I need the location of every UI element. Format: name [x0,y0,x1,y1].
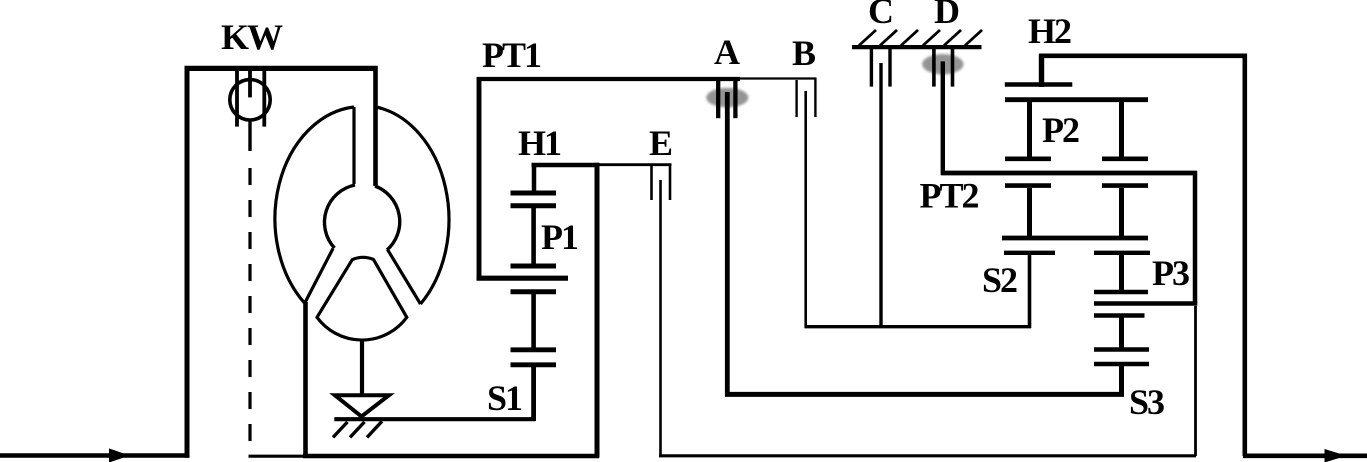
S3 riser [1119,365,1124,396]
wire: top horizontal KW shaft [185,66,378,71]
wall hatch 1 [859,30,876,46]
B shaft [804,91,807,328]
P2 left pillar lower [1027,188,1032,236]
svg-text:C: C [868,0,894,31]
svg-text:P2: P2 [1042,110,1079,150]
ground triangle [335,395,389,416]
P3 mesh bar a [1094,251,1150,255]
svg-text:B: B [792,33,816,73]
P3 pillar 1 [1119,188,1124,236]
P3 ring lower vertical [1194,306,1197,456]
D plate right [951,49,955,87]
E bracket right tick [669,164,672,201]
A plate right [733,80,737,118]
S3 mesh bar lower [1094,362,1149,367]
svg-text:S3: S3 [1129,382,1164,422]
svg-text:P3: P3 [1152,253,1189,293]
torque converter shell left arc [275,107,354,303]
PT1 shaft line to A [477,77,740,81]
wall hatch 2 [880,30,897,46]
bottom line under converter [303,454,599,459]
slot left edge [352,107,355,184]
dashed centerline [248,168,251,456]
E shaft [659,180,662,456]
H2 drum bar [1005,82,1073,86]
turbine circle right arc [375,186,400,250]
ground hatch 1 [333,422,348,438]
svg-text:KW: KW [221,17,283,57]
wire: left vertical engine to pump [185,66,190,458]
H1 stub to clutch [532,167,537,193]
S1 mesh bar upper [511,347,557,352]
input arrowhead [109,448,130,462]
turbine circle left arc [324,185,355,248]
PT2 shaft line [941,171,1197,176]
S1 mesh bar lower [511,362,557,367]
P3 pillar 2 [1119,254,1124,290]
P2 left bar below PT2 [1005,183,1051,188]
PT2 to P3 long bar [1094,301,1197,306]
S1 riser to ground [531,365,536,421]
P2 left pillar upper [1027,101,1032,157]
housing wall line C D [852,45,982,49]
PT1 elbow vertical [477,77,482,278]
pump plate left [235,71,239,127]
H2 line top [1039,53,1247,58]
C plate left [870,49,873,87]
shaft clutch to P1 mesh [531,207,536,266]
D shaft to PT2 [941,61,945,175]
ground hatch 3 [367,421,382,437]
svg-text:PT1: PT1 [482,35,541,75]
B bracket left tick [795,80,797,117]
P1 lower mesh bar [511,289,557,294]
torque converter shell right arc [376,107,449,304]
svg-text:H2: H2 [1028,11,1071,51]
centerline bottom link [249,455,305,458]
C plate right [888,49,891,87]
svg-text:S1: S1 [487,378,522,418]
C shaft [879,63,882,327]
stator shaft [360,340,364,394]
H1 drum top bar [532,163,600,168]
svg-text:S2: S2 [982,260,1017,300]
output arrowhead [1325,449,1347,462]
pump plate right [262,71,266,127]
wall hatch 3 [901,30,918,46]
line B to S2 [805,325,1032,328]
converter shell left wall [303,302,308,458]
H1 right wall [595,163,600,458]
A plate left [716,80,720,118]
centerline solid stub below circle [248,120,251,151]
wall hatch 5 [944,30,961,46]
P1 pillar [531,293,536,349]
output right vertical [1243,54,1248,456]
ground line to S1 [334,417,535,421]
svg-text:P1: P1 [541,217,578,257]
thin line A to B [738,77,817,79]
S2 riser [1028,254,1032,328]
clutch plate upper [511,191,557,196]
clutch plate lower [511,203,557,208]
A output shaft [725,92,730,396]
turbine input shaft [373,66,378,186]
P2 ring long bar [1005,97,1148,102]
H2 vertical stub [1039,54,1044,87]
P3 pillar 3 [1119,317,1124,349]
E bracket left tick [650,166,653,200]
input shaft line [0,453,190,458]
P3 top bar below PT2 [1102,183,1148,188]
svg-text:A: A [714,32,740,72]
stator sector [317,257,407,340]
B bracket right tick [814,78,816,117]
bottom line E to P3 ring [659,454,1196,457]
line A to S3 [725,392,1124,397]
wall hatch 4 [923,30,940,46]
svg-text:H1: H1 [518,123,561,163]
ground hatch 2 [350,422,365,438]
output bottom line [1243,453,1367,458]
svg-text:D: D [934,0,960,31]
carrier long bar [1002,236,1148,241]
P2 right pillar upper [1119,101,1124,157]
P2 right bar above PT2 [1102,157,1148,162]
wall hatch 6 [965,30,982,46]
clutch A actuator ellipse [706,88,748,108]
P3 mesh bar b [1094,290,1148,295]
P3 mesh bar c [1094,313,1145,318]
P1 mesh top bar [511,264,557,269]
left V slot outer edge [305,249,334,304]
P2 left bar above PT2 [1005,157,1051,162]
H1 line to E [599,163,672,166]
S2 mesh bar [1004,251,1055,255]
pump circle [230,80,270,120]
clutch D actuator ellipse [922,54,963,74]
svg-text:PT2: PT2 [919,176,978,216]
S3 mesh bar upper [1094,347,1149,352]
D plate left [932,49,936,87]
pump center stub [248,71,252,97]
PT2 elbow vertical [1193,171,1198,303]
svg-text:E: E [649,123,673,163]
right V slot outer edge [388,250,421,305]
P1 carrier long bar [477,276,569,281]
